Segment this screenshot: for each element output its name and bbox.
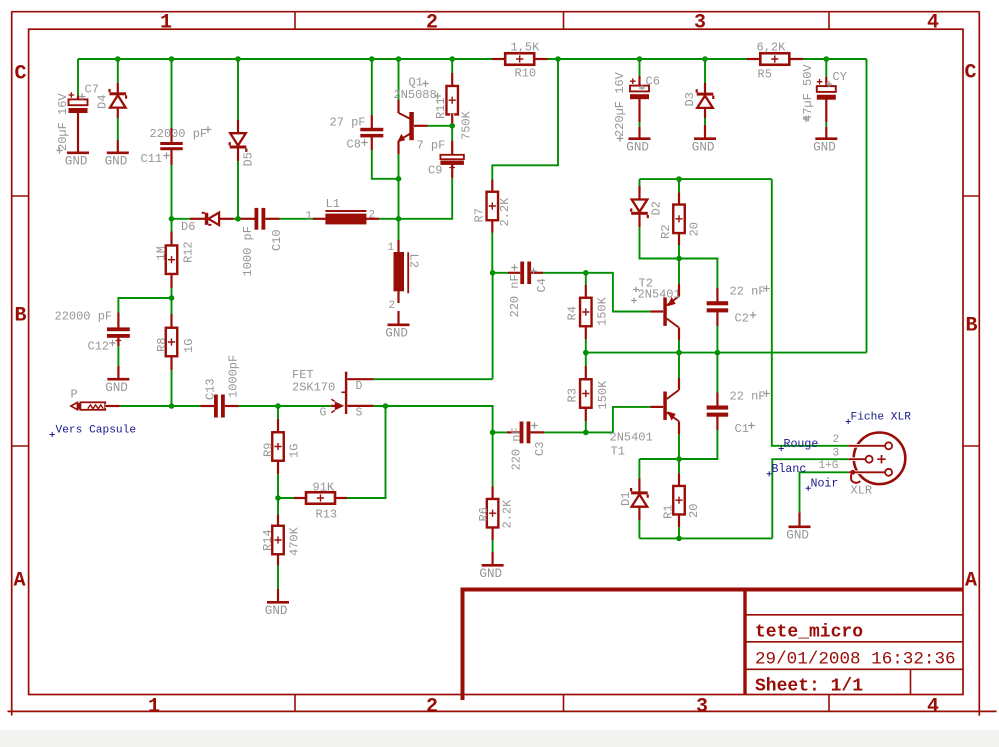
- capacitor C4: [508, 271, 522, 275]
- svg-text:D1: D1: [619, 492, 633, 506]
- resistor R13: [294, 496, 308, 500]
- junction node 16: [169, 295, 175, 301]
- svg-text:20µF 16V: 20µF 16V: [56, 93, 70, 151]
- wire C7 to GND: [77, 113, 79, 152]
- title block row line 1: [745, 614, 963, 616]
- svg-text:GND: GND: [65, 155, 88, 169]
- svg-text:C9: C9: [428, 164, 442, 178]
- svg-text:1: 1: [148, 696, 160, 719]
- svg-text:R2: R2: [659, 225, 673, 239]
- wire out rail: [639, 458, 717, 460]
- svg-text:4: 4: [927, 696, 939, 719]
- wire bus to C6: [639, 59, 641, 86]
- junction node 20: [275, 495, 281, 501]
- svg-text:27 pF: 27 pF: [330, 116, 366, 130]
- title block row line 3: [745, 668, 963, 670]
- svg-text:1+G: 1+G: [819, 460, 839, 472]
- ground GND below R14: [276, 589, 280, 602]
- wire C6 to GND: [639, 100, 641, 138]
- svg-text:3: 3: [696, 696, 708, 719]
- capacitor CY: [824, 77, 828, 88]
- outer frame top line: [12, 11, 980, 13]
- wire C4 run: [493, 272, 586, 274]
- wire CY to GND: [825, 101, 827, 138]
- svg-text:S: S: [356, 407, 363, 420]
- resistor R9: [276, 419, 280, 433]
- svg-text:L2: L2: [407, 254, 421, 268]
- junction node 23: [583, 270, 589, 276]
- junction node 9: [702, 56, 708, 62]
- connector XLR pin hole 3: [866, 456, 873, 463]
- svg-text:R9: R9: [262, 443, 276, 457]
- junction node 18: [275, 403, 281, 409]
- svg-text:1: 1: [306, 211, 313, 223]
- junction node 15: [235, 216, 241, 222]
- transistor T1: [663, 392, 667, 420]
- wire L node to L2: [398, 219, 400, 252]
- svg-text:Rouge: Rouge: [784, 438, 819, 451]
- diode D3: [703, 83, 707, 94]
- svg-text:D2: D2: [650, 201, 664, 215]
- wire T2 base run: [586, 273, 651, 312]
- wire blanc run: [772, 459, 848, 538]
- diode D6: [190, 217, 205, 221]
- svg-text:D6: D6: [181, 220, 195, 234]
- svg-text:R13: R13: [316, 508, 338, 522]
- capacitor C1: [715, 393, 719, 407]
- diode D1: [637, 479, 641, 493]
- svg-text:G: G: [320, 407, 327, 420]
- svg-text:tete_micro: tete_micro: [755, 623, 863, 643]
- frame tick right C|B: [963, 195, 979, 197]
- wire bus to D5: [237, 59, 239, 133]
- connector XLR pin hole 1: [885, 469, 892, 476]
- wire C8 to emitter node: [372, 137, 399, 179]
- junction node 3: [235, 56, 241, 62]
- wire C12 to GND: [117, 337, 119, 379]
- svg-text:C13: C13: [204, 378, 218, 400]
- connector P (vers capsule): [71, 402, 78, 409]
- svg-text:2: 2: [369, 210, 376, 222]
- wire D2 top line: [640, 178, 772, 180]
- junction node 24: [583, 350, 589, 356]
- wire R7 to D node: [491, 220, 493, 273]
- wire T1 emitter down: [678, 422, 680, 459]
- wire bus to D3: [704, 59, 706, 93]
- resistor R2: [677, 193, 681, 207]
- svg-text:C10: C10: [270, 229, 284, 251]
- svg-text:1: 1: [160, 12, 172, 35]
- svg-text:220 nF: 220 nF: [508, 274, 522, 317]
- wire top supply bus: [78, 58, 867, 60]
- connector XLR pin hole 2: [885, 442, 892, 449]
- svg-text:B: B: [15, 305, 27, 328]
- capacitor C8: [370, 115, 374, 129]
- svg-text:22 nF: 22 nF: [730, 390, 766, 404]
- frame tick top 2|3: [563, 12, 565, 30]
- svg-text:150K: 150K: [596, 296, 610, 326]
- wire R1 segment: [678, 459, 680, 538]
- svg-text:C: C: [965, 62, 977, 85]
- wire D2 segment: [639, 179, 641, 199]
- svg-text:C4: C4: [535, 278, 549, 292]
- resistor R6: [491, 487, 495, 501]
- resistor R3: [584, 366, 588, 380]
- svg-text:2.2K: 2.2K: [498, 197, 512, 227]
- wire bus to R11: [451, 59, 453, 87]
- junction node 26: [715, 350, 721, 356]
- svg-text:2: 2: [389, 300, 396, 312]
- wire T2 emitter up: [678, 259, 680, 298]
- wire R3 segment: [585, 353, 587, 433]
- inductor L2: [397, 240, 401, 253]
- resistor R4: [584, 285, 588, 299]
- svg-text:4: 4: [927, 12, 939, 35]
- svg-text:R8: R8: [155, 338, 169, 352]
- svg-text:20: 20: [687, 504, 701, 518]
- diode D2: [638, 186, 642, 201]
- svg-text:47µF 50V: 47µF 50V: [801, 64, 815, 122]
- junction node 11: [449, 123, 455, 129]
- wire R13 run: [278, 406, 386, 498]
- wire bus to Q1 collector: [398, 59, 400, 113]
- svg-text:C12: C12: [88, 340, 110, 354]
- capacitor C9: [450, 141, 454, 156]
- capacitor C12: [116, 313, 120, 329]
- junction node 17: [169, 403, 175, 409]
- svg-text:GND: GND: [479, 567, 502, 581]
- bottom gray strip: [0, 730, 999, 747]
- svg-text:2SK170: 2SK170: [292, 381, 335, 395]
- resistor R11: [450, 73, 454, 88]
- wire FET source line: [374, 406, 493, 432]
- svg-text:R3: R3: [566, 388, 580, 402]
- wire bus to C8: [371, 59, 373, 128]
- svg-text:R14: R14: [261, 529, 275, 551]
- svg-text:D5: D5: [242, 152, 256, 166]
- ground GND below C12: [116, 366, 120, 379]
- transistor T2: [663, 298, 667, 326]
- title block thick left line: [461, 588, 465, 701]
- svg-text:A: A: [14, 570, 26, 593]
- wire bus to CY: [825, 59, 827, 87]
- svg-text:C11: C11: [141, 152, 163, 166]
- wire C11 to node row: [171, 152, 173, 219]
- svg-text:C6: C6: [646, 75, 660, 89]
- ground GND below C7: [76, 139, 80, 152]
- svg-text:220 nF: 220 nF: [510, 427, 524, 470]
- svg-text:C1: C1: [735, 422, 749, 436]
- svg-text:1G: 1G: [182, 339, 196, 353]
- wire capsule line: [119, 405, 331, 407]
- wire R2 segment: [678, 179, 680, 258]
- svg-text:D3: D3: [683, 92, 697, 106]
- resistor R10: [492, 57, 506, 61]
- transistor Q1: [397, 100, 401, 113]
- svg-text:T1: T1: [611, 445, 625, 459]
- frame tick right B|A: [963, 445, 979, 447]
- svg-text:R4: R4: [566, 306, 580, 320]
- svg-text:Fiche XLR: Fiche XLR: [851, 412, 912, 424]
- svg-text:D: D: [356, 380, 363, 393]
- junction node 8: [637, 56, 643, 62]
- svg-text:22000 pF: 22000 pF: [150, 127, 208, 141]
- wire bus to C11: [171, 59, 173, 141]
- ground GND below D3: [703, 125, 707, 138]
- junction node 10: [824, 56, 830, 62]
- svg-text:91K: 91K: [313, 481, 335, 495]
- svg-text:GND: GND: [385, 327, 408, 341]
- resistor R1: [677, 474, 681, 488]
- junction node 19: [383, 403, 389, 409]
- wire C3 run: [493, 431, 586, 433]
- ground GND below C6: [638, 127, 642, 138]
- wire D3 to GND: [704, 108, 706, 138]
- ground GND below D4: [116, 140, 120, 152]
- wire Q1 emitter down: [398, 141, 400, 219]
- svg-text:Blanc: Blanc: [772, 463, 807, 476]
- svg-text:1M: 1M: [155, 246, 169, 260]
- svg-text:A: A: [965, 570, 977, 593]
- wire R9 segment: [277, 406, 279, 498]
- junction node 31: [676, 536, 682, 542]
- title block thick top line: [461, 588, 963, 592]
- connector XLR shell hook: [851, 474, 860, 483]
- svg-text:C3: C3: [533, 442, 547, 456]
- wire node row horizontal: [172, 218, 399, 220]
- junction node 30: [676, 456, 682, 462]
- capacitor C11: [170, 128, 174, 143]
- svg-text:22000 pF: 22000 pF: [55, 310, 113, 324]
- capacitor C10: [241, 217, 255, 221]
- svg-text:P: P: [71, 388, 78, 402]
- svg-text:R7: R7: [473, 208, 487, 222]
- resistor R14: [276, 515, 280, 529]
- junction node 25: [676, 350, 682, 356]
- svg-text:L1: L1: [326, 197, 340, 211]
- junction node 21: [490, 270, 496, 276]
- junction node 13: [396, 216, 402, 222]
- svg-text:GND: GND: [786, 529, 809, 543]
- svg-text:2N5088: 2N5088: [394, 88, 437, 102]
- svg-text:R6: R6: [477, 507, 491, 521]
- svg-text:XLR: XLR: [851, 484, 873, 498]
- capacitor C3: [507, 430, 521, 434]
- junction node 12: [396, 176, 402, 182]
- junction node 6: [449, 56, 455, 62]
- title block row line 2: [745, 641, 963, 643]
- wire C2 to mid rail: [716, 313, 718, 353]
- diode D5: [236, 120, 240, 134]
- title block thick mid line: [743, 588, 746, 695]
- svg-text:220µF 16V: 220µF 16V: [613, 71, 627, 137]
- wire bus right drop to mid rail: [866, 59, 868, 353]
- svg-text:R11: R11: [434, 97, 448, 119]
- capacitor C7: [76, 96, 80, 101]
- diode D4: [116, 83, 120, 93]
- wire R11 to Q1 base: [414, 114, 452, 126]
- svg-text:GND: GND: [105, 381, 128, 395]
- svg-text:R1: R1: [662, 505, 676, 519]
- wire noir run: [800, 472, 849, 512]
- outer frame left line: [11, 12, 13, 716]
- outer frame bottom line: [8, 710, 997, 712]
- wire bus to C7: [77, 59, 79, 100]
- frame tick left B|A: [12, 445, 29, 447]
- svg-text:3: 3: [833, 448, 840, 460]
- ground GND below R6: [491, 552, 495, 565]
- resistor R12: [170, 232, 174, 246]
- svg-text:3: 3: [694, 12, 706, 35]
- capacitor C6: [638, 76, 642, 87]
- svg-text:1G: 1G: [288, 444, 302, 458]
- capacitor C13: [201, 404, 215, 408]
- svg-text:GND: GND: [692, 141, 715, 155]
- wire R4 segment: [585, 273, 587, 353]
- frame tick left C|B: [12, 195, 29, 197]
- wire C9 to L node: [399, 165, 453, 219]
- junction node 5: [396, 56, 402, 62]
- junction node 1: [115, 56, 121, 62]
- wire D2 bottom to node: [640, 215, 680, 259]
- junction node 29: [676, 256, 682, 262]
- wire node to C12: [118, 298, 171, 328]
- wire R8 segment: [171, 298, 173, 406]
- svg-text:2N5401: 2N5401: [638, 288, 681, 302]
- svg-text:1: 1: [388, 242, 395, 254]
- svg-text:R10: R10: [515, 67, 537, 81]
- wire C1 to out rail: [679, 418, 717, 460]
- ground GND below XLR: [798, 512, 802, 526]
- wire node to C2: [679, 259, 717, 302]
- svg-text:C7: C7: [85, 83, 99, 97]
- junction node 2: [169, 56, 175, 62]
- wire T1 base run: [586, 407, 651, 433]
- wire T1 collector up: [678, 353, 680, 390]
- capacitor C2: [715, 288, 719, 302]
- svg-text:1000 pF: 1000 pF: [241, 226, 255, 276]
- svg-text:Vers Capsule: Vers Capsule: [56, 425, 137, 437]
- wire R6 segment: [492, 432, 494, 565]
- svg-text:C8: C8: [347, 138, 361, 152]
- junction node 7: [555, 56, 561, 62]
- wire mid rail to C1: [716, 353, 718, 406]
- wire bus to D4: [117, 59, 119, 93]
- svg-text:150K: 150K: [596, 380, 610, 410]
- svg-text:29/01/2008 16:32:36: 29/01/2008 16:32:36: [755, 650, 956, 670]
- svg-text:GND: GND: [626, 141, 649, 155]
- resistor R7: [490, 180, 494, 194]
- connector XLR pin line 3: [848, 457, 865, 461]
- svg-text:B: B: [966, 315, 978, 338]
- wire base node to C9: [451, 126, 453, 155]
- junction node 27: [583, 430, 589, 436]
- svg-text:7 pF: 7 pF: [417, 139, 446, 153]
- wire T2 collector down: [678, 328, 680, 353]
- frame tick bottom 3|4: [828, 695, 830, 712]
- svg-text:2: 2: [426, 696, 438, 719]
- svg-text:2.2K: 2.2K: [501, 499, 515, 529]
- frame tick bottom 2|3: [563, 695, 565, 712]
- junction node 14: [169, 216, 175, 222]
- connector XLR pin line 2: [848, 444, 885, 448]
- svg-text:CY: CY: [833, 70, 847, 84]
- inductor L1: [313, 217, 326, 221]
- wire R12 segment: [171, 219, 173, 298]
- svg-text:Sheet: 1/1: Sheet: 1/1: [755, 677, 863, 697]
- frame tick top 1|2: [294, 12, 296, 30]
- junction node 28: [676, 176, 682, 182]
- wire FET drain line: [374, 378, 493, 380]
- wire bus to R7 feed: [492, 59, 558, 193]
- resistor R5: [747, 57, 761, 61]
- ground GND below L2: [397, 311, 401, 325]
- svg-text:GND: GND: [105, 155, 128, 169]
- svg-text:2N5401: 2N5401: [610, 431, 653, 445]
- svg-text:20: 20: [688, 222, 702, 236]
- svg-text:2: 2: [426, 12, 438, 35]
- wire bottom out rail: [639, 537, 772, 539]
- svg-text:750K: 750K: [460, 110, 474, 140]
- wire D5 to node row: [237, 149, 239, 219]
- svg-text:22 nF: 22 nF: [730, 285, 766, 299]
- svg-text:GND: GND: [265, 604, 288, 618]
- wire D1 segment: [638, 459, 640, 538]
- junction node 4: [369, 56, 375, 62]
- svg-text:470K: 470K: [288, 526, 302, 556]
- frame tick top 3|4: [828, 12, 830, 30]
- svg-text:GND: GND: [813, 141, 836, 155]
- wire D4 to GND: [117, 108, 119, 152]
- connector XLR pin line 1+G: [848, 470, 885, 474]
- svg-text:R5: R5: [758, 68, 772, 82]
- connector XLR circle: [854, 433, 906, 485]
- wire D node vertical: [492, 273, 494, 379]
- wire rouge drop: [772, 179, 849, 446]
- frame tick bottom 1|2: [294, 695, 296, 712]
- transistor FET 2SK170: [345, 372, 347, 414]
- ground GND below CY: [824, 127, 828, 139]
- svg-text:Noir: Noir: [811, 478, 839, 491]
- wire R14 segment: [277, 498, 279, 602]
- svg-text:2: 2: [833, 434, 840, 446]
- svg-text:1,5K: 1,5K: [511, 41, 541, 55]
- junction node 22: [490, 430, 496, 436]
- svg-text:D4: D4: [96, 95, 110, 109]
- resistor R8: [170, 314, 174, 328]
- svg-text:R12: R12: [182, 241, 196, 263]
- svg-text:1000pF: 1000pF: [227, 355, 241, 398]
- title block sheet divider: [910, 669, 912, 694]
- svg-text:6,2K: 6,2K: [757, 41, 787, 55]
- outer frame right line: [978, 12, 980, 716]
- svg-text:C2: C2: [735, 312, 749, 326]
- connector XLR plus mark: [877, 455, 885, 463]
- svg-text:C: C: [15, 63, 27, 86]
- wire mid rail: [586, 352, 867, 354]
